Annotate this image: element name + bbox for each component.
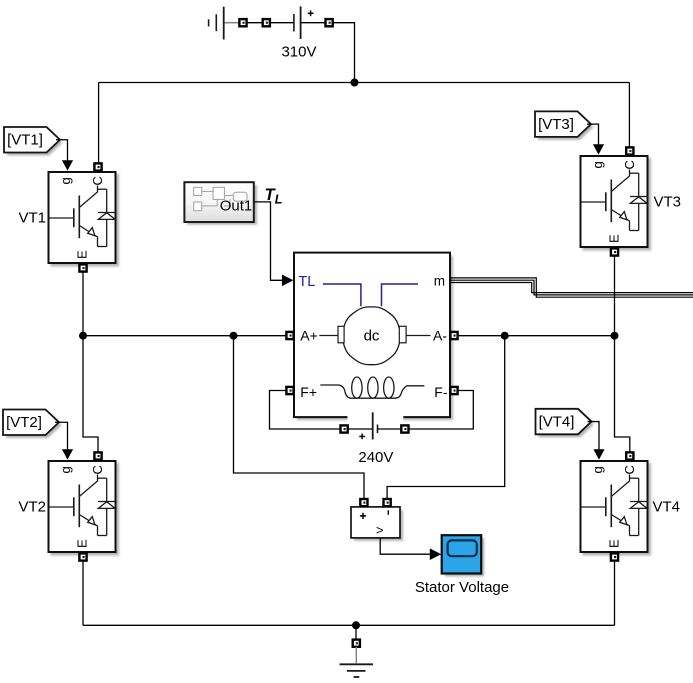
wire port to plate (348, 428, 372, 430)
svg-text:[VT2]: [VT2] (6, 414, 42, 431)
wire to ground port (355, 625, 357, 639)
port 240V left (341, 425, 348, 432)
battery plates 240V (372, 412, 374, 439)
svg-text:VT3: VT3 (654, 194, 682, 211)
wire (247, 22, 263, 24)
tag [VT4] (536, 409, 595, 438)
wire A- rail (458, 335, 615, 337)
svg-text:>: > (376, 523, 384, 538)
junction dot left (79, 332, 87, 340)
wire VT3 E down to A- rail and VT4 C (615, 256, 630, 453)
arrow into g VT1 (62, 160, 73, 170)
port minus (384, 499, 391, 506)
blue line TL right (382, 284, 419, 306)
svg-text:240V: 240V (358, 449, 393, 466)
svg-text:F-: F- (434, 384, 448, 400)
wire (270, 22, 294, 24)
wire down to VT1 C (98, 83, 100, 164)
wire (302, 22, 326, 24)
arrow into g VT2 (62, 449, 73, 459)
wire brush to A- (406, 335, 430, 337)
arrow into g VT3 (593, 144, 604, 154)
svg-text:L: L (275, 192, 283, 206)
battery left plates (209, 7, 224, 40)
port E VT4 (611, 553, 618, 560)
wire bottom rail (83, 624, 615, 626)
arrow into scope (430, 548, 442, 560)
wire plate to port (378, 428, 402, 430)
wire A+ rail (83, 335, 286, 337)
wire A+ to brush (319, 335, 338, 337)
wire tap to VM minus (387, 336, 505, 499)
port C VT4 (626, 452, 633, 459)
wire from tag VT3 (587, 124, 599, 145)
wire from tag VT2 (55, 422, 68, 450)
transistor VT1 (49, 172, 120, 267)
port (239, 19, 246, 26)
svg-text:m: m (434, 273, 445, 288)
svg-text:[VT1]: [VT1] (7, 132, 43, 149)
wire to top rail (333, 23, 355, 83)
wire VT1 E down to A+ rail and to VT2 C (83, 272, 98, 453)
svg-text:310V: 310V (281, 44, 316, 61)
junction dot bottom (352, 621, 360, 629)
field coil (320, 385, 424, 398)
arrow into g VT4 (593, 449, 604, 459)
tag [VT2] (3, 410, 62, 439)
port E VT3 (611, 248, 618, 255)
wire Out1 to TL input (254, 202, 283, 280)
wire from tag VT4 (588, 422, 600, 450)
transistor VT2 (49, 461, 120, 556)
arrow into TL (282, 275, 294, 287)
svg-text:dc: dc (364, 327, 380, 344)
brush right (399, 326, 406, 343)
wire F+ loop (270, 391, 341, 430)
blue line TL left (323, 284, 361, 306)
wire tap to VM plus (234, 336, 365, 499)
svg-text:VT1: VT1 (18, 210, 46, 227)
tag [VT1] (4, 127, 63, 156)
port A- (450, 332, 457, 339)
wire VT4 E to bottom rail (614, 561, 616, 626)
junction dot right (611, 332, 619, 340)
label minus tick (387, 510, 389, 515)
junction dot tap plus (230, 332, 238, 340)
port (326, 19, 333, 26)
gray stub (225, 22, 240, 24)
port plus (360, 499, 367, 506)
block Out1 (187, 185, 257, 225)
svg-text:Out1: Out1 (220, 198, 253, 215)
plus sign (308, 10, 314, 16)
transistor VT3 (581, 156, 652, 251)
svg-text:F+: F+ (300, 384, 317, 400)
svg-text:TL: TL (298, 274, 315, 290)
armature circle (342, 307, 401, 365)
svg-text:[VT4]: [VT4] (539, 414, 575, 431)
battery right plates (294, 6, 301, 39)
wire F- loop (408, 391, 473, 430)
svg-text:Stator Voltage: Stator Voltage (415, 579, 509, 596)
white cover for 240V source block (347, 412, 403, 441)
port C VT3 (626, 147, 633, 154)
wire down to VT3 C (628, 83, 630, 148)
svg-text:VT4: VT4 (653, 499, 681, 516)
plus sign 240V (359, 434, 365, 440)
junction dot tap minus (501, 332, 509, 340)
port C VT2 (94, 452, 101, 459)
wire top rail (99, 82, 630, 84)
svg-text:A+: A+ (300, 327, 318, 343)
brush left (338, 326, 344, 343)
port E VT2 (79, 553, 86, 560)
port F+ (286, 387, 293, 394)
junction dot (351, 79, 359, 87)
port (263, 19, 270, 26)
port F- (450, 387, 457, 394)
tag [VT3] (535, 111, 594, 139)
port A+ (286, 332, 293, 339)
wire VM to scope (380, 538, 431, 554)
transistor VT4 (581, 461, 652, 556)
port C VT1 (94, 163, 101, 170)
block scope (445, 538, 485, 576)
ground symbol (355, 647, 357, 663)
svg-text:A-: A- (433, 327, 447, 343)
label plus (360, 513, 366, 519)
port E VT1 (79, 264, 86, 271)
port 240V right (401, 425, 408, 432)
m output triple line (450, 278, 693, 297)
svg-text:VT2: VT2 (18, 499, 46, 516)
wire VT2 E to bottom rail (82, 561, 84, 626)
block dc machine (297, 256, 453, 421)
ground port (353, 640, 360, 647)
block voltmeter (354, 510, 403, 541)
svg-text:[VT3]: [VT3] (538, 116, 574, 133)
wire from tag VT1 (56, 140, 68, 161)
